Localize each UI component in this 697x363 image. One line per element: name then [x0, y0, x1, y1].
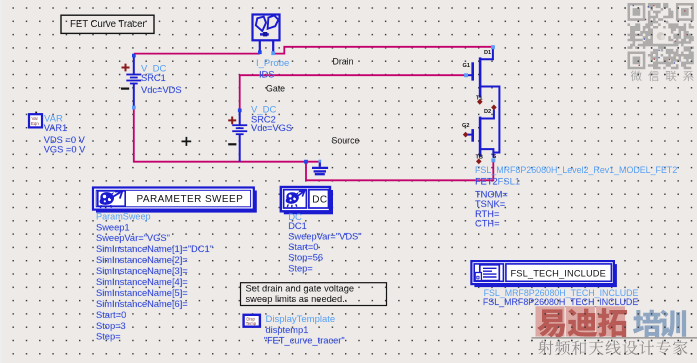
svg-text:Source: Source — [332, 136, 360, 146]
svg-text:TSNK=: TSNK= — [475, 199, 505, 209]
FET gate pin — [464, 73, 468, 77]
svg-text:FET2: FET2 — [475, 177, 498, 187]
variables block VAR1 (VAR eqn) — [29, 112, 42, 128]
svg-text:SimInstanceName[1]="DC1": SimInstanceName[1]="DC1" — [96, 244, 213, 254]
svg-text:FSL_MRF8P26080H_Level2_Rev1_MO: FSL_MRF8P26080H_Level2_Rev1_MODEL_FET2 — [475, 165, 677, 175]
svg-text:DC1: DC1 — [288, 221, 307, 231]
svg-text:Step=: Step= — [288, 263, 313, 273]
wire: SRC1 top to I_Probe left terminal (drain net) — [134, 53, 260, 55]
wire: SRC2 plus terminal to FET gate (Gate net) — [240, 75, 466, 110]
include block FSL_TECH_INCLUDE — [471, 261, 617, 287]
svg-text:SweepVar="VGS": SweepVar="VGS" — [96, 233, 170, 243]
svg-text:Vdc=VDS: Vdc=VDS — [141, 85, 182, 95]
watermark slogan — [538, 340, 687, 355]
wire: SRC1 minus terminal to ground rail — [134, 108, 320, 162]
svg-text:G1: G1 — [463, 63, 470, 69]
svg-text:VGS =0 V: VGS =0 V — [44, 145, 86, 155]
FET labels and parameters — [475, 165, 677, 229]
svg-text:Sweep1: Sweep1 — [96, 222, 130, 232]
I_Probe left pin — [258, 50, 262, 54]
svg-text:VAR1: VAR1 — [44, 123, 68, 133]
SRC1 labels — [141, 64, 182, 96]
svg-text:Start=0: Start=0 — [96, 310, 126, 320]
FSL_TECH_INCLUDE labels — [483, 288, 639, 307]
voltage source SRC2 (V_DC battery) — [232, 110, 247, 161]
FET lower: unconnected pin TB (diamond) — [476, 159, 482, 165]
svg-text:D2: D2 — [484, 109, 491, 115]
transistor FSL1 (FSL_MRF8P26080H Level2 model, upper FET) — [466, 49, 499, 158]
svg-text:SimInstanceName[4]=: SimInstanceName[4]= — [96, 277, 188, 287]
svg-text:DisplayTemplate: DisplayTemplate — [266, 314, 336, 325]
SRC1 bottom pin — [132, 106, 136, 110]
svg-text:DC: DC — [312, 195, 327, 206]
svg-text:CTH=: CTH= — [475, 219, 500, 229]
FET upper: pin label D1 — [484, 50, 491, 56]
FET lower: unconnected pin D2 (diamond) — [491, 105, 497, 111]
junction: ground node — [304, 160, 308, 164]
svg-text:I_Probe: I_Probe — [256, 58, 289, 69]
svg-text:Stop=3: Stop=3 — [96, 321, 126, 331]
watermark QR caption — [631, 71, 694, 82]
svg-text:SimInstanceName[3]=: SimInstanceName[3]= — [96, 266, 188, 276]
svg-text:FSL1: FSL1 — [498, 177, 521, 188]
FET lower: pin label D2 — [484, 109, 491, 115]
node label Gate — [266, 84, 285, 94]
I_Probe right pin — [271, 51, 275, 55]
origin cross marker — [182, 137, 192, 146]
svg-text:disptemp1: disptemp1 — [266, 325, 309, 335]
svg-text:Stop=56: Stop=56 — [288, 253, 323, 263]
node label Drain — [333, 56, 354, 66]
controller Sweep1 (PARAMETER SWEEP) — [93, 188, 257, 213]
wire: ground rail to FET source (Source net) — [306, 159, 493, 180]
svg-text:FSL_TECH_INCLUDE: FSL_TECH_INCLUDE — [511, 268, 606, 278]
note box: sweep limits — [241, 283, 387, 306]
svg-text:SimInstanceName[5]=: SimInstanceName[5]= — [96, 288, 188, 298]
SRC1 minus polarity mark — [121, 87, 129, 89]
svg-text:sweep limits as needed..: sweep limits as needed.. — [246, 294, 348, 304]
disptemp1 labels — [264, 314, 345, 346]
svg-text:SRC1: SRC1 — [141, 73, 166, 83]
svg-text:Temp: Temp — [246, 321, 257, 326]
FET source pin label S — [493, 154, 497, 160]
SRC1 plus polarity mark — [122, 64, 130, 72]
node label Source — [332, 136, 360, 146]
SRC2 minus polarity mark — [228, 143, 236, 145]
watermark brand characters — [537, 308, 686, 337]
FET upper: pin label G1 — [463, 63, 470, 69]
wire: I_Probe right terminal to FET drain pin (Drain net) — [273, 47, 493, 54]
SRC1 top pin — [132, 54, 136, 58]
svg-text:Eqn: Eqn — [31, 121, 39, 126]
display template disptemp1 — [244, 315, 260, 327]
Sweep1 parameter list — [96, 211, 213, 341]
svg-text:IDS: IDS — [259, 70, 275, 80]
controller DC1 (DC simulation) — [281, 187, 333, 214]
VAR labels — [44, 113, 86, 154]
voltage source SRC1 (V_DC battery) — [126, 56, 141, 107]
svg-text:Var: Var — [32, 116, 39, 121]
current probe IDS (I_Probe meter) — [253, 15, 280, 54]
FET source pin — [491, 158, 495, 162]
svg-text:VDS =0 V: VDS =0 V — [44, 135, 86, 145]
svg-text:Set drain and gate voltage: Set drain and gate voltage — [246, 284, 355, 294]
svg-text:SimInstanceName[2]=: SimInstanceName[2]= — [96, 255, 188, 265]
svg-text:Start=0: Start=0 — [288, 242, 318, 252]
svg-text:G2: G2 — [462, 123, 469, 129]
DC1 parameter list — [288, 212, 361, 273]
SRC2 top pin — [238, 109, 242, 113]
svg-text:Step=: Step= — [96, 332, 121, 342]
FET upper: unconnected pin T1 (diamond) — [477, 99, 483, 105]
svg-text:D1: D1 — [484, 50, 491, 56]
watermark divider line — [532, 337, 697, 339]
svg-text:Gate: Gate — [266, 84, 285, 94]
svg-text:SweepVar="VDS": SweepVar="VDS" — [288, 232, 361, 242]
FET lower: pin label G2 — [462, 123, 469, 129]
svg-text:Vdc=VGS: Vdc=VGS — [251, 123, 292, 133]
FET lower: pin label TB — [476, 155, 483, 161]
watermark QR code (decorative overlay) — [628, 3, 694, 69]
watermark brand background blocks — [536, 306, 626, 336]
SRC2 plus polarity mark — [228, 117, 236, 125]
FET lower: unconnected pin G2 (diamond) — [463, 132, 469, 138]
svg-text:"FET_curve_tracer": "FET_curve_tracer" — [264, 336, 345, 346]
title box: FET Curve Tracer — [61, 15, 154, 33]
ground — [312, 160, 328, 175]
svg-text:PARAMETER SWEEP: PARAMETER SWEEP — [137, 194, 244, 205]
svg-text:SimInstanceName[6]=: SimInstanceName[6]= — [96, 299, 188, 309]
transistor FSL1 lower FET of symbol — [467, 110, 494, 157]
SRC2 labels — [251, 105, 292, 134]
svg-text:ParamSweep: ParamSweep — [96, 211, 151, 221]
svg-text:Drain: Drain — [333, 56, 354, 66]
FET drain pin — [491, 45, 495, 49]
I_Probe labels — [256, 58, 289, 79]
FET upper: pin label T1 — [476, 96, 483, 102]
svg-text:FET Curve Tracer: FET Curve Tracer — [70, 19, 146, 30]
